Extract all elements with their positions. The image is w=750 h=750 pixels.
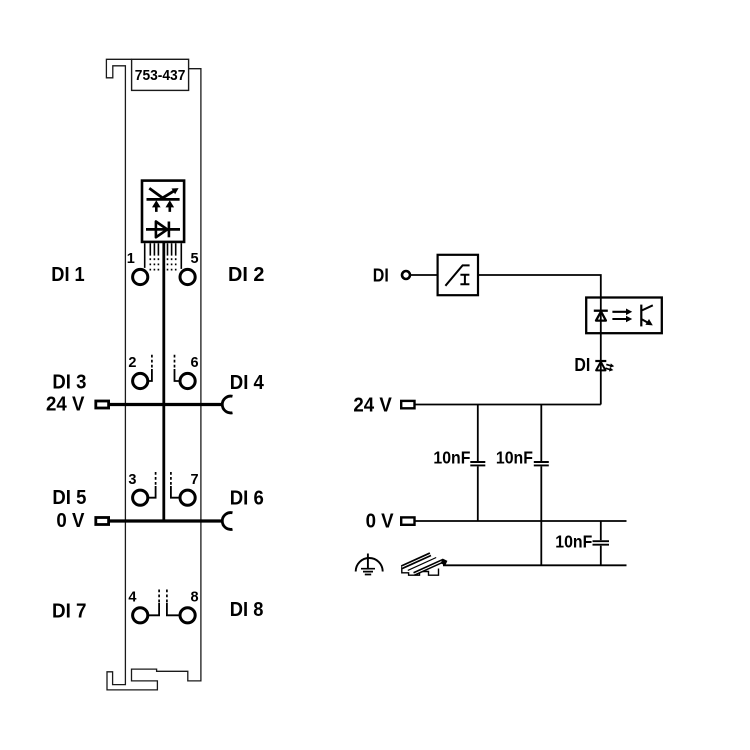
- svg-text:0 V: 0 V: [56, 509, 84, 532]
- svg-text:DI: DI: [574, 355, 590, 375]
- svg-text:24 V: 24 V: [46, 392, 85, 415]
- svg-text:4: 4: [128, 589, 136, 605]
- svg-text:8: 8: [191, 589, 199, 605]
- svg-text:10nF: 10nF: [496, 447, 533, 467]
- svg-text:DI 8: DI 8: [230, 598, 264, 621]
- svg-text:5: 5: [191, 251, 199, 267]
- svg-text:DI 7: DI 7: [52, 600, 87, 623]
- svg-text:24 V: 24 V: [353, 394, 392, 417]
- svg-text:DI 2: DI 2: [228, 263, 264, 286]
- svg-text:DI 6: DI 6: [230, 487, 264, 510]
- svg-text:0 V: 0 V: [366, 509, 394, 532]
- svg-text:2: 2: [128, 355, 136, 371]
- svg-text:DI 3: DI 3: [52, 371, 86, 394]
- svg-text:6: 6: [191, 355, 199, 371]
- svg-text:7: 7: [191, 472, 199, 488]
- svg-text:10nF: 10nF: [555, 532, 592, 552]
- svg-text:10nF: 10nF: [433, 447, 470, 467]
- svg-text:DI 4: DI 4: [230, 371, 265, 394]
- svg-text:DI: DI: [373, 265, 389, 285]
- svg-text:DI 1: DI 1: [51, 263, 84, 286]
- svg-text:753-437: 753-437: [135, 67, 186, 84]
- svg-text:DI 5: DI 5: [52, 486, 86, 509]
- svg-text:3: 3: [128, 472, 136, 488]
- svg-text:1: 1: [127, 251, 135, 267]
